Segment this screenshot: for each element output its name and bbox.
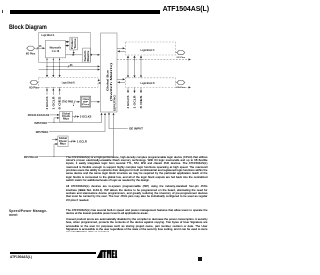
svg-text:Port: Port	[82, 103, 89, 106]
svg-text:I/O Pins: I/O Pins	[26, 53, 36, 56]
svg-text:I/O Pins: I/O Pins	[177, 57, 186, 59]
svg-text:1 GCLR: 1 GCLR	[51, 97, 55, 110]
Logic Block C dashed box	[126, 42, 176, 55]
svg-text:INPUT/OE1: INPUT/OE1	[36, 130, 49, 134]
up arrows into macrocells bottom	[46, 58, 60, 60]
svg-text:ISP/JTAG: ISP/JTAG	[112, 95, 116, 111]
wires bus to Logic Block D	[117, 78, 125, 80]
svg-text:Clock: Clock	[62, 115, 71, 118]
bus line 2	[39, 69, 100, 71]
svg-text:I/O Pins: I/O Pins	[177, 87, 186, 89]
verticals A to B	[46, 58, 48, 77]
paragraph 3a	[66, 209, 208, 216]
verticals C to D	[127, 60, 129, 78]
Logic Block A outer box	[39, 33, 91, 63]
D bottom dashed extension with hook	[175, 86, 190, 88]
svg-text:Logic Block D: Logic Block D	[141, 81, 155, 85]
svg-text:Logic Block C: Logic Block C	[141, 48, 155, 52]
svg-text:6 OES: 6 OES	[139, 95, 143, 108]
paragraph 1	[66, 156, 208, 183]
svg-text:Clear: Clear	[59, 140, 67, 143]
wire macrocells to switch box	[66, 54, 75, 56]
stubs up into C	[127, 56, 129, 60]
block diagram SVG	[0, 0, 213, 275]
paragraph 3b	[66, 218, 208, 232]
product terms bottom stub	[73, 50, 75, 54]
footer doc title	[10, 255, 32, 259]
svg-text:1 GCLR: 1 GCLR	[77, 140, 87, 143]
svg-text:Global Bus: Global Bus	[106, 69, 110, 91]
header black bar	[10, 10, 160, 13]
svg-text:(Switch Matrix): (Switch Matrix)	[109, 63, 113, 101]
switch box (vertical)	[83, 48, 91, 62]
product term select box (vertical)	[70, 37, 78, 50]
svg-text:4: 4	[73, 104, 75, 107]
svg-text:I/O/GCLK1/GCLK2: I/O/GCLK1/GCLK2	[28, 113, 50, 117]
OE INPUT wire	[109, 113, 128, 129]
global clock mux box	[60, 111, 73, 122]
clear mux output	[68, 140, 76, 142]
JTAG box	[76, 101, 80, 103]
stubs under D	[127, 87, 129, 92]
svg-text:I/O Pins: I/O Pins	[29, 87, 39, 90]
branch into clock mux second input	[54, 118, 59, 123]
wires macrocells to product terms	[66, 41, 69, 43]
wire switch box to global bus (bidirectional)	[90, 54, 99, 56]
svg-text:1 to 16: 1 to 16	[52, 49, 60, 53]
svg-text:JTAG PINS: JTAG PINS	[62, 100, 74, 104]
right dashed bus with end hook	[117, 59, 191, 61]
svg-text:16: 16	[39, 46, 42, 48]
svg-text:Terms: Terms	[74, 38, 77, 49]
wire diamond1 to macrocells with 16 bus	[35, 47, 45, 49]
I/O pins diamond 1	[27, 46, 35, 50]
Logic Block D dashed box	[126, 78, 176, 88]
I/O diamond D	[175, 82, 177, 84]
svg-text:3 GCLKS: 3 GCLKS	[80, 116, 92, 119]
I/O diamond C	[175, 52, 177, 54]
stubs under B with up arrows	[46, 89, 48, 95]
svg-text:INPUT/OE2: INPUT/OE2	[35, 121, 48, 125]
footer rule	[10, 252, 96, 254]
svg-text:3 GCLKS: 3 GCLKS	[45, 96, 49, 109]
macrocells box	[45, 41, 65, 58]
svg-text:INPUT/GCLR: INPUT/GCLR	[24, 155, 38, 159]
svg-text:Mux: Mux	[63, 119, 70, 121]
svg-text:Matrix: Matrix	[87, 50, 90, 62]
svg-text:Mux: Mux	[60, 143, 67, 145]
branch into clear mux	[54, 144, 57, 157]
top-left page mark	[2, 10, 3, 13]
wires B to global bus	[98, 79, 100, 81]
svg-text:1 GCLR: 1 GCLR	[133, 96, 137, 109]
svg-text:Logic Block A: Logic Block A	[41, 33, 55, 37]
global clear mux box	[58, 136, 68, 147]
clock mux output 3 GCLKS	[72, 116, 79, 118]
svg-text:Logic Block B: Logic Block B	[62, 81, 75, 85]
footer page number square	[198, 257, 202, 261]
paragraph 2	[66, 185, 208, 202]
header title ATF1504AS(L)	[120, 6, 209, 13]
junction dots	[46, 66, 60, 70]
Logic Block B dashed box	[39, 78, 99, 88]
side heading Speed/Power Management	[9, 210, 64, 218]
svg-text:3 GCLKS: 3 GCLKS	[126, 95, 130, 108]
ATMEL logo	[97, 250, 117, 258]
I/O pins diamond 2	[30, 80, 38, 84]
section heading	[9, 24, 47, 31]
svg-text:OE INPUT: OE INPUT	[129, 128, 144, 131]
right: wires bus to Logic Block C	[117, 47, 125, 49]
global bus / switch matrix tall box	[101, 33, 118, 112]
bus line 1 with 36 label	[46, 65, 100, 67]
